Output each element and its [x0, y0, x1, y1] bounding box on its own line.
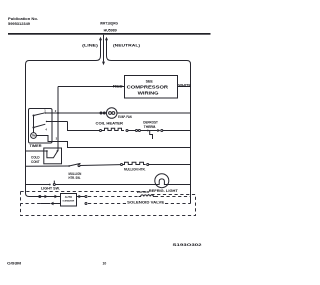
svg-text:(NEUTRAL): (NEUTRAL): [113, 43, 141, 47]
svg-text:WHITE: WHITE: [178, 84, 191, 88]
svg-text:SOLENOID VALVE: SOLENOID VALVE: [127, 201, 165, 205]
svg-text:10: 10: [103, 262, 107, 266]
svg-text:RED: RED: [113, 83, 123, 88]
svg-text:O/93M: O/93M: [7, 262, 21, 266]
svg-text:TIMER: TIMER: [30, 144, 43, 148]
svg-text:HU5989: HU5989: [104, 29, 117, 33]
svg-text:HTR. SW.: HTR. SW.: [69, 176, 81, 180]
svg-text:REFRIG. LIGHT: REFRIG. LIGHT: [149, 189, 178, 193]
svg-text:COMPRESSOR: COMPRESSOR: [127, 85, 169, 90]
svg-text:EVAP. FAN: EVAP. FAN: [118, 115, 132, 119]
svg-text:Publication No.: Publication No.: [8, 17, 38, 21]
svg-text:5995312349: 5995312349: [8, 22, 30, 26]
svg-text:TM: TM: [31, 134, 36, 138]
svg-text:DEFROST: DEFROST: [143, 121, 158, 125]
svg-text:S193O302: S193O302: [173, 242, 203, 247]
svg-text:(LINE): (LINE): [82, 43, 99, 47]
svg-text:THERM.: THERM.: [144, 125, 156, 129]
svg-text:SEE: SEE: [146, 79, 154, 83]
svg-text:LIGHT SW.: LIGHT SW.: [41, 186, 60, 190]
svg-text:WRT18QRG: WRT18QRG: [100, 21, 118, 25]
svg-text:WIRING: WIRING: [138, 91, 159, 96]
svg-text:CONT: CONT: [31, 160, 40, 164]
svg-text:MULLION HTR.: MULLION HTR.: [124, 167, 146, 171]
svg-text:ICEMAKER: ICEMAKER: [63, 200, 75, 203]
svg-text:COIL HEATER: COIL HEATER: [96, 121, 124, 125]
svg-text:AUTO: AUTO: [65, 195, 72, 199]
